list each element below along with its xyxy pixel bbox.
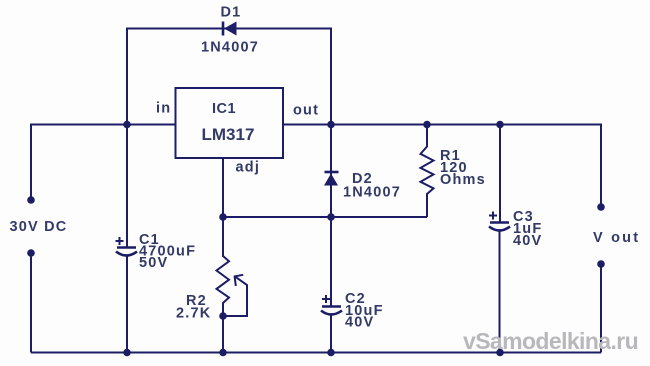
node: C3 bottom junction	[496, 349, 504, 357]
svg-text:IC1: IC1	[212, 101, 236, 117]
terminal: V out lower	[597, 260, 605, 268]
wire: R2 wiper arm with arrow	[223, 275, 247, 316]
svg-text:Ohms: Ohms	[440, 172, 486, 188]
svg-text:D1: D1	[221, 5, 242, 21]
node: D2 bottom junction	[327, 213, 335, 221]
node: junction left vertical on main wire	[123, 121, 131, 129]
diode D2 (vertical, pointing up)	[324, 125, 339, 218]
wire: adj horizontal rail	[223, 216, 427, 218]
svg-text:40V: 40V	[513, 233, 542, 249]
wire: V out lower terminal down to bottom rail	[600, 264, 602, 353]
svg-text:V out: V out	[593, 230, 640, 246]
wire: bottom ground rail	[31, 352, 601, 354]
capacitor C3 (electrolytic)	[489, 125, 510, 353]
svg-text:in: in	[156, 101, 171, 117]
node: out junction (D2 top)	[327, 121, 335, 129]
terminal: 30V DC lower	[27, 249, 35, 257]
terminal: 30V DC upper	[27, 196, 35, 204]
resistor R1 (vertical zigzag)	[421, 125, 434, 218]
svg-text:adj: adj	[236, 160, 261, 176]
svg-text:1N4007: 1N4007	[343, 185, 401, 201]
terminal: V out upper	[597, 203, 605, 211]
svg-text:LM317: LM317	[202, 125, 255, 144]
svg-text:30V DC: 30V DC	[10, 219, 68, 235]
node: R1 top junction	[423, 121, 431, 129]
node: C2 bottom junction	[327, 349, 335, 357]
svg-text:1N4007: 1N4007	[201, 40, 259, 56]
node: R2 bottom junction	[219, 349, 227, 357]
wire: left vertical to C1	[126, 125, 128, 248]
capacitor C1 (electrolytic)	[116, 237, 138, 353]
wire top loop: left vertical, top horizontal, right vertical	[127, 29, 331, 125]
svg-text:vSamodelkina.ru: vSamodelkina.ru	[463, 328, 638, 354]
svg-text:out: out	[293, 103, 319, 119]
wire: D2 bottom to C2	[330, 217, 332, 306]
wire: out pin to right rail, down to V out upper terminal	[283, 125, 601, 208]
IC IC1 LM317 box	[176, 88, 284, 158]
resistor R2 (vertical zigzag, rheostat)	[217, 217, 230, 353]
wire: lower left terminal to bottom rail	[30, 253, 32, 353]
svg-text:50V: 50V	[139, 255, 168, 271]
wire: input left branch to IC in pin	[31, 125, 176, 201]
node: adj junction (R2 top)	[219, 213, 227, 221]
diode D1 (horizontal, pointing left)	[223, 22, 237, 36]
svg-text:40V: 40V	[345, 315, 374, 331]
node: R2 wiper junction	[219, 312, 227, 320]
wire: adj pin down from box	[222, 158, 224, 217]
node: C1 bottom junction	[123, 349, 131, 357]
svg-text:2.7K: 2.7K	[176, 306, 211, 322]
node: C3 top junction	[496, 121, 504, 129]
capacitor C2 (electrolytic)	[321, 295, 342, 353]
